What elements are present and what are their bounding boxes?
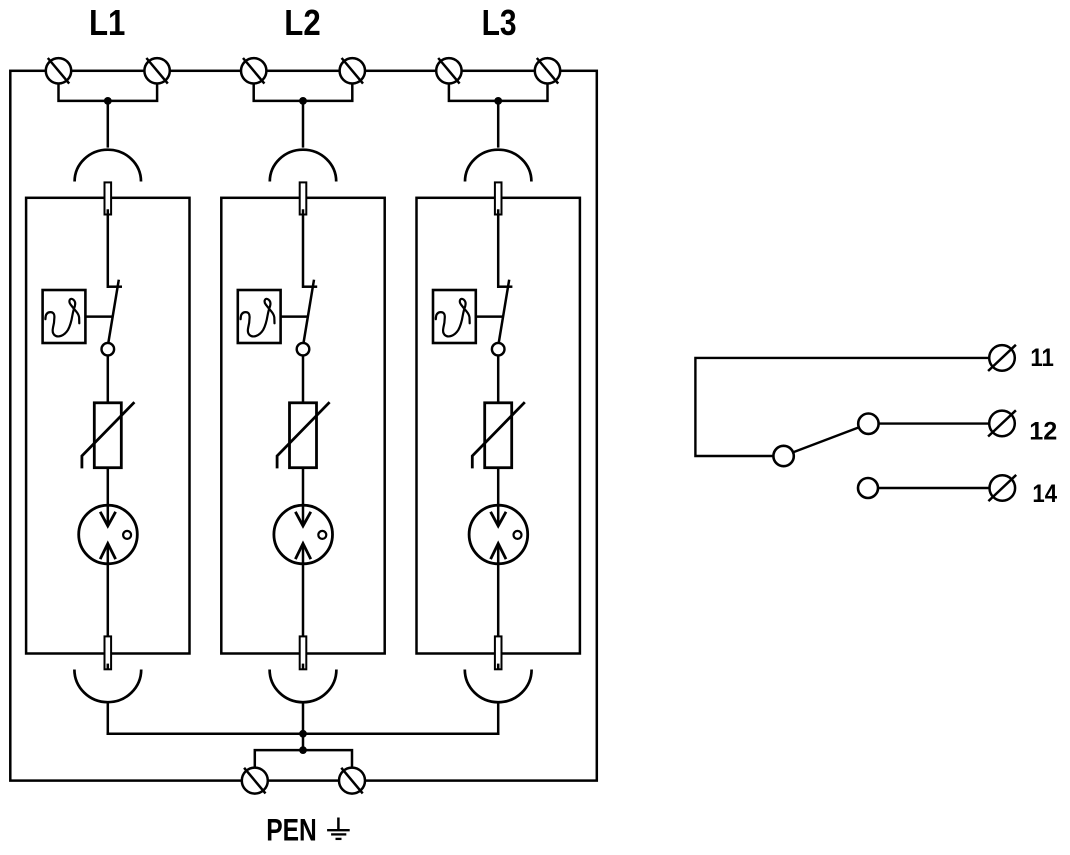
- svg-text:L2: L2: [284, 2, 320, 43]
- svg-text:PEN: PEN: [266, 811, 317, 847]
- svg-text:L3: L3: [482, 2, 517, 43]
- svg-text:14: 14: [1032, 480, 1057, 508]
- svg-text:12: 12: [1029, 418, 1057, 446]
- svg-text:11: 11: [1030, 344, 1054, 372]
- svg-text:L1: L1: [89, 2, 125, 43]
